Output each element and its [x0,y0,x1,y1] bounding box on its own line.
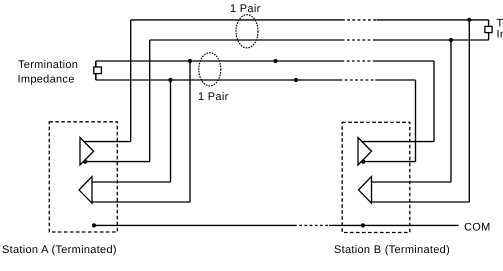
wire W4 dashed middle segment [340,79,376,81]
svg-text:Termination: Termination [18,59,78,71]
op-amp driver station B (triangle pointing right) [358,138,372,166]
wire W4 second pair line B (left solid segment) [96,79,340,81]
wire vertical V1 from W1 down to station A driver top output [130,20,132,142]
op-amp receiver station A (triangle pointing left) [79,177,92,204]
wire station B driver bottom output lead [363,161,416,163]
cable pair marker ellipse around W3/W4 [199,53,221,86]
resistor RT1 left termination impedance body [94,67,102,74]
wire station B receiver bottom input lead [372,201,470,203]
wire W1 dashed middle segment [342,19,377,21]
wire station A receiver top input lead [92,181,171,183]
wire COM dashed middle segment [294,224,329,226]
junction dot station B driver inverting output [361,160,365,164]
wire W3 right solid segment [373,60,434,62]
wire station A driver bottom output lead [85,161,150,163]
junction dot on W3 at station A receiver tap [188,59,192,63]
junction dot station A COM connection [92,223,96,227]
wire W3 dashed middle segment [342,60,374,62]
svg-text:Station A (Terminated): Station A (Terminated) [2,244,117,256]
wire W2 right solid segment [374,39,489,41]
junction dot on W3 mid-span [273,59,277,63]
wire W4 right solid segment [375,79,415,81]
junction dot on W4 at station A receiver tap [168,78,172,82]
svg-text:1 Pair: 1 Pair [230,3,261,15]
wire W2 top pair line B (left solid segment) [150,39,342,41]
junction dot station A driver inverting output [83,160,87,164]
wire vertical V3 from W4 junction down to station A receiver top input [170,80,172,182]
wire COM bus (left solid segment) [94,224,294,226]
wire station B driver top output lead [362,141,434,143]
op-amp driver station A (triangle pointing right) [80,138,94,166]
junction dot on W2 at station B receiver tap [449,38,453,42]
wire vertical V2 from W2 down to station A driver bottom output [149,40,151,162]
wire station A receiver bottom input lead [92,201,190,203]
wire station A driver top output lead [84,141,131,143]
station A dashed enclosure box [49,122,117,232]
termination impedance right: corner from W1 down to resistor and to W2 [488,20,490,40]
wire COM right solid segment [329,224,459,226]
wire vertical V8 from W1 junction down to station B receiver bottom input [468,20,470,202]
wire W1 top pair line A (left solid segment) [131,19,342,21]
svg-text:1 Pair: 1 Pair [198,91,229,103]
junction dot on W1 at station B receiver tap [467,18,471,22]
wire vertical V5 from W4 down to station B driver bottom output [415,80,417,162]
resistor RT2 right termination impedance body [485,26,492,32]
svg-text:Impedance: Impedance [497,29,503,41]
junction dot station B COM connection [361,223,365,227]
termination impedance left: connecting stub [95,61,97,80]
cable pair marker ellipse around W1/W2 [236,15,258,48]
wire W1 right solid segment [377,19,489,21]
svg-text:Station B (Terminated): Station B (Terminated) [334,244,450,256]
wire vertical V4 from W3 junction down to station A receiver bottom input [189,61,191,202]
junction dot on W4 mid-span [294,78,298,82]
wire vertical V6 from W3 down to station B driver top output [433,61,435,142]
wire W3 second pair line A (left solid segment) [96,60,342,62]
wire W2 dashed middle segment [342,39,374,41]
station B dashed enclosure box [342,122,410,232]
svg-text:COM: COM [464,222,491,234]
op-amp receiver station B (triangle pointing left) [359,177,372,204]
svg-text:Impedance: Impedance [18,74,75,86]
wire station B receiver top input lead [372,181,452,183]
wire vertical V7 from W2 junction down to station B receiver top input [450,40,452,182]
